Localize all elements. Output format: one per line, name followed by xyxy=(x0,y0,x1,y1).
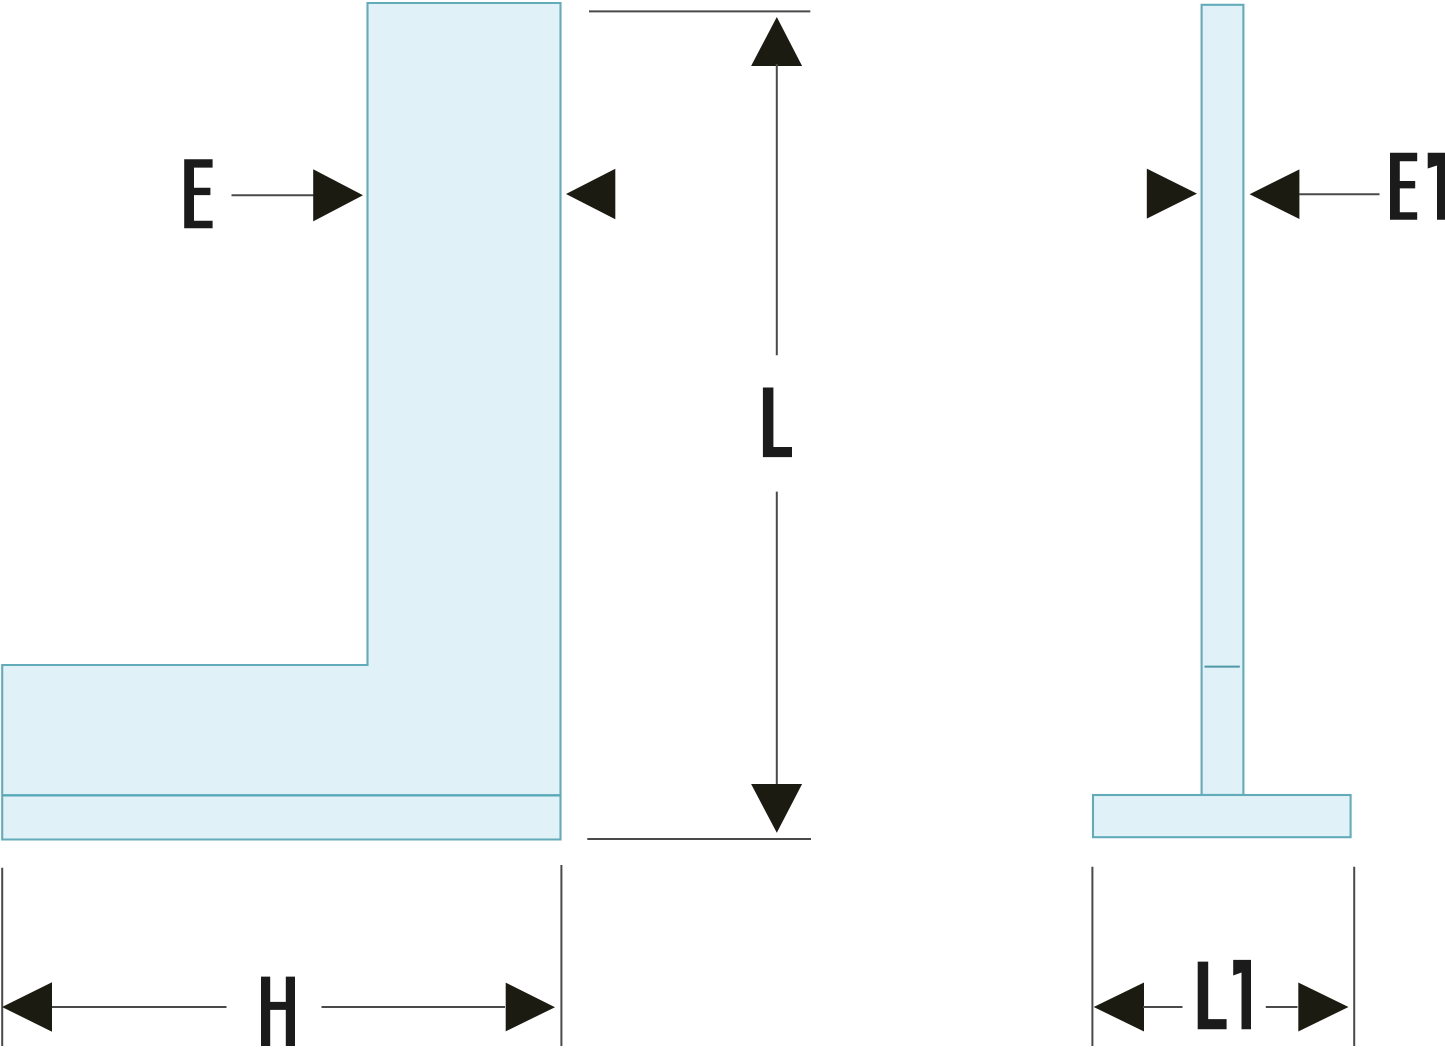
stock divider line front view xyxy=(2,794,560,796)
dimension line H left segment xyxy=(52,1006,227,1008)
leader line E1 xyxy=(1299,193,1380,195)
arrow H left xyxy=(2,982,52,1031)
stock side view xyxy=(1093,795,1351,837)
arrow E left-pointing at blade right edge xyxy=(566,169,615,219)
extension line right for H xyxy=(560,865,562,1046)
square body front view (L-shape blade + stock) xyxy=(2,3,560,840)
arrow E right-pointing at blade left edge xyxy=(313,169,363,221)
extension line right for L1 xyxy=(1353,867,1355,1046)
arrow L1 left xyxy=(1094,983,1144,1032)
extension line left for L1 xyxy=(1091,867,1093,1046)
extension line left for H xyxy=(1,868,3,1046)
label L1 xyxy=(1198,960,1251,1029)
blade side view xyxy=(1202,5,1244,795)
dimension line L1 right segment xyxy=(1266,1006,1298,1008)
dimension line L1 left segment xyxy=(1143,1006,1183,1008)
arrow L down xyxy=(751,784,802,833)
arrow E1 right-pointing at side blade left edge xyxy=(1147,169,1197,219)
label E1 xyxy=(1390,153,1445,220)
dimension line L lower segment xyxy=(776,492,778,785)
extension line top for L xyxy=(589,10,810,12)
label L xyxy=(763,388,792,458)
dimension line H right segment xyxy=(322,1006,506,1008)
label H xyxy=(261,977,295,1047)
dimension line L upper segment xyxy=(776,64,778,355)
arrow E1 left-pointing at side blade right edge xyxy=(1250,169,1300,219)
arrow L1 right xyxy=(1298,983,1348,1032)
label E xyxy=(184,159,212,228)
blade tick side view xyxy=(1205,666,1240,668)
leader line E xyxy=(232,194,315,196)
arrow L up xyxy=(751,17,802,66)
extension line bottom for L xyxy=(587,838,811,840)
arrow H right xyxy=(506,983,555,1032)
